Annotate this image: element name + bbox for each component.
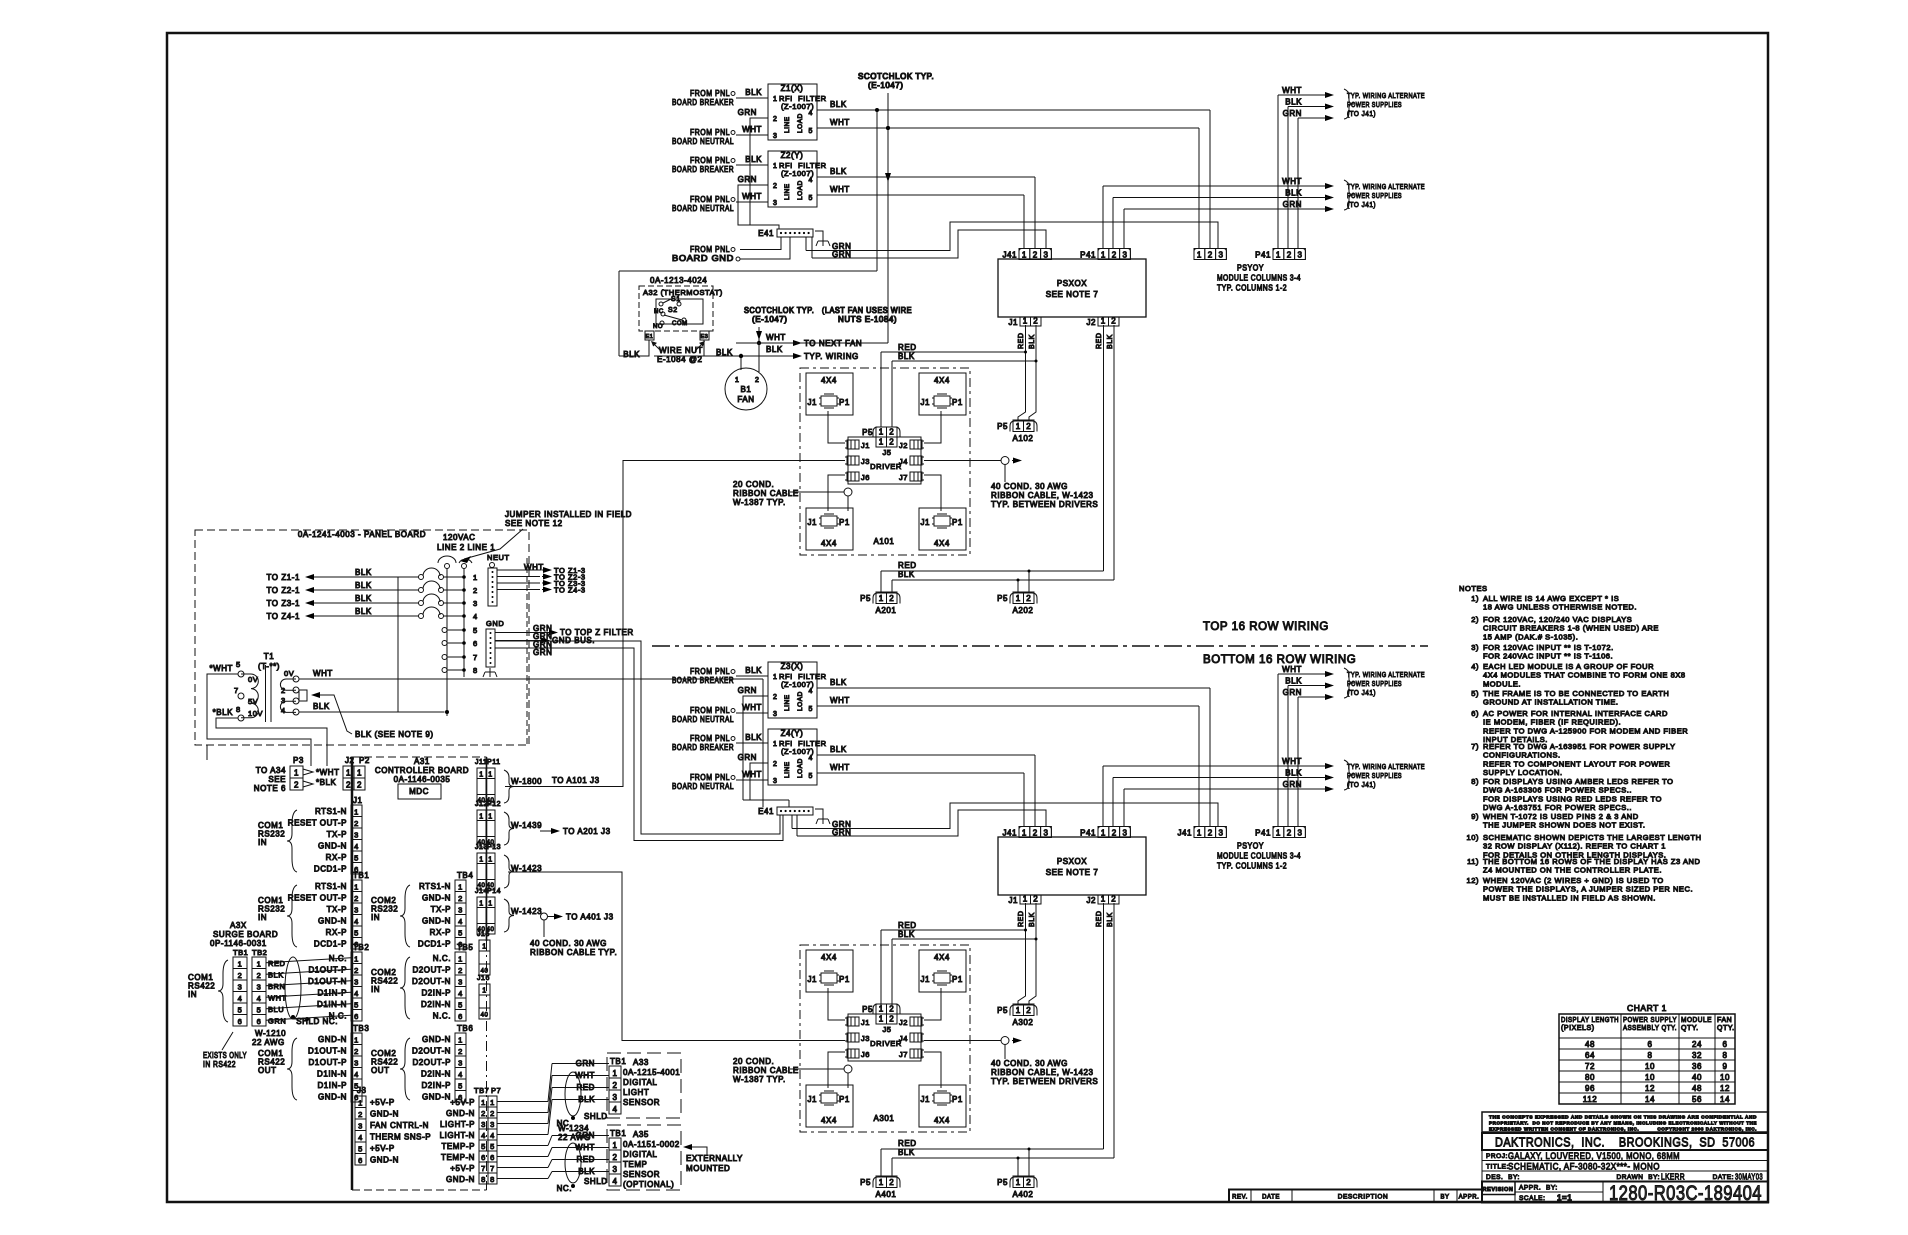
svg-text:BLK: BLK [1029,912,1036,927]
svg-text:FROM PNL: FROM PNL [690,245,730,254]
svg-text:4: 4 [281,706,286,715]
svg-text:TB5: TB5 [457,943,473,952]
svg-text:1: 1 [1023,317,1028,326]
svg-text:BLK: BLK [830,100,847,109]
svg-text:20 COND.: 20 COND. [733,480,774,489]
svg-text:112: 112 [1583,1095,1597,1104]
svg-text:TYP. WIRING: TYP. WIRING [804,352,859,361]
svg-text:DISPLAY LENGTH: DISPLAY LENGTH [1561,1017,1619,1024]
svg-text:4: 4 [458,989,463,998]
svg-text:BRN: BRN [268,982,286,991]
svg-text:P1: P1 [952,1095,963,1104]
svg-text:2: 2 [1033,251,1038,260]
svg-text:P1: P1 [952,398,963,407]
svg-text:N.C.: N.C. [433,954,451,963]
svg-text:GND-N: GND-N [318,842,347,851]
svg-text:BLK: BLK [1285,98,1302,107]
svg-text:1: 1 [879,1178,884,1187]
svg-text:J1: J1 [807,518,817,527]
svg-text:SUPPLY LOCATION.: SUPPLY LOCATION. [1483,768,1563,777]
svg-text:3: 3 [1044,829,1049,838]
svg-text:12: 12 [1720,1084,1730,1093]
svg-text:TO Z3-1: TO Z3-1 [267,599,301,608]
svg-text:4X4: 4X4 [821,376,837,385]
svg-text:1: 1 [613,1069,618,1078]
svg-text:REFER TO DWG A-125900 FOR MODE: REFER TO DWG A-125900 FOR MODEM AND FIBE… [1483,726,1688,735]
svg-text:1: 1 [1197,251,1202,260]
svg-text:RIBBON CABLE, W-1423: RIBBON CABLE, W-1423 [991,1068,1093,1077]
svg-text:D2OUT-P: D2OUT-P [412,966,451,975]
svg-text:6: 6 [490,1153,495,1162]
svg-text:1: 1 [735,377,739,384]
svg-text:P5: P5 [997,1178,1008,1187]
svg-text:WHT: WHT [766,333,786,342]
svg-text:2: 2 [458,894,463,903]
svg-text:GRN: GRN [533,648,552,657]
svg-text:P1: P1 [839,1095,850,1104]
svg-text:EXTERNALLY: EXTERNALLY [686,1154,743,1163]
svg-text:120VAC: 120VAC [443,533,476,542]
svg-text:WHT: WHT [830,185,850,194]
svg-text:96: 96 [1585,1084,1595,1093]
svg-text:ASSEMBLY QTY.: ASSEMBLY QTY. [1623,1025,1677,1032]
svg-text:(T-**): (T-**) [258,662,280,671]
svg-text:SHLD: SHLD [584,1112,608,1121]
svg-text:14: 14 [1645,1095,1655,1104]
svg-text:J1: J1 [920,398,930,407]
svg-text:4X4: 4X4 [934,376,950,385]
svg-text:1: 1 [1101,829,1106,838]
svg-text:1: 1 [346,769,351,778]
svg-text:LINE: LINE [784,116,791,133]
svg-text:40: 40 [481,1013,489,1019]
svg-text:BLK: BLK [1107,334,1114,349]
svg-text:FOR 120VAC INPUT ** IS T-1072.: FOR 120VAC INPUT ** IS T-1072. [1483,643,1614,652]
svg-text:2: 2 [354,819,359,828]
svg-text:1): 1) [1471,594,1479,603]
svg-text:TB7: TB7 [474,1086,489,1095]
svg-text:P1: P1 [839,398,850,407]
svg-text:0A-1213-4024: 0A-1213-4024 [650,276,707,285]
svg-text:40: 40 [1692,1073,1702,1082]
svg-text:P5: P5 [997,594,1008,603]
svg-text:REV.: REV. [1232,1195,1248,1201]
svg-text:A201: A201 [876,606,897,615]
svg-text:2: 2 [773,694,777,701]
svg-text:J12: J12 [475,801,488,808]
svg-text:SURGE BOARD: SURGE BOARD [213,930,278,939]
svg-text:3: 3 [358,1122,363,1131]
svg-text:5: 5 [458,1082,463,1091]
svg-text:6: 6 [257,1017,262,1026]
svg-text:GND: GND [486,619,504,628]
svg-text:RED: RED [1018,333,1025,349]
svg-text:J3: J3 [861,457,870,466]
svg-text:DATE:: DATE: [1713,1174,1734,1181]
svg-text:QTY.: QTY. [1717,1025,1735,1032]
svg-text:10): 10) [1467,833,1480,842]
svg-text:TO A34: TO A34 [256,766,286,775]
svg-text:DRAWN BY:: DRAWN BY: [1616,1174,1660,1181]
svg-text:6: 6 [458,1012,463,1021]
svg-text:(TO J41): (TO J41) [1347,200,1376,209]
svg-text:DIGITAL: DIGITAL [623,1150,657,1159]
svg-text:BLK: BLK [1107,912,1114,927]
svg-text:GND-N: GND-N [318,1035,347,1044]
svg-text:5: 5 [481,1142,486,1151]
svg-text:EXPRESSED WRITTEN CONSENT OF D: EXPRESSED WRITTEN CONSENT OF DAKTRONICS,… [1489,1127,1757,1132]
svg-text:1: 1 [479,901,483,908]
svg-text:OUT: OUT [258,1066,277,1075]
svg-text:BOTTOM 16 ROW WIRING: BOTTOM 16 ROW WIRING [1203,654,1356,666]
svg-text:W-1800: W-1800 [511,777,542,786]
svg-text:P41: P41 [1255,251,1271,260]
svg-text:8: 8 [473,666,478,675]
svg-text:GRN: GRN [738,108,757,117]
svg-text:4X4 MODULES THAT COMBINE TO FO: 4X4 MODULES THAT COMBINE TO FORM ONE 8X8 [1483,671,1686,680]
svg-text:GND BUS.: GND BUS. [552,636,595,645]
svg-text:REVISION: REVISION [1483,1187,1514,1193]
svg-text:DAKTRONICS, INC. BROOKINGS: DAKTRONICS, INC. BROOKINGS, SD 57006 [1495,1135,1755,1150]
svg-text:P5: P5 [860,1178,871,1187]
svg-text:DATE: DATE [1262,1195,1280,1201]
svg-text:32 ROW DISPLAY (X112). REFER T: 32 ROW DISPLAY (X112). REFER TO CHART 1 [1483,842,1666,851]
svg-text:TO Z1-1: TO Z1-1 [267,573,301,582]
svg-text:TB3: TB3 [353,1024,369,1033]
svg-text:GND-N: GND-N [318,1093,347,1102]
svg-text:5: 5 [458,929,463,938]
svg-text:Z3(X): Z3(X) [781,662,804,671]
svg-text:GND-N: GND-N [318,917,347,926]
svg-text:4: 4 [809,177,813,184]
svg-text:6): 6) [1471,709,1479,718]
svg-text:3: 3 [490,1120,495,1129]
svg-text:1: 1 [488,772,492,779]
svg-text:WHT: WHT [742,770,762,779]
svg-text:SHLD: SHLD [584,1177,608,1186]
svg-text:P1: P1 [839,975,850,984]
svg-text:TB1: TB1 [610,1057,626,1066]
svg-text:1: 1 [1016,422,1021,431]
svg-text:POWER SUPPLIES: POWER SUPPLIES [1347,191,1402,200]
svg-text:2: 2 [1026,1178,1031,1187]
svg-text:2): 2) [1471,615,1479,624]
svg-text:18 AWG UNLESS OTHERWISE NOTED.: 18 AWG UNLESS OTHERWISE NOTED. [1483,603,1637,612]
svg-text:5: 5 [257,1006,262,1015]
svg-text:REFER TO DWG A-163951 FOR POWE: REFER TO DWG A-163951 FOR POWER SUPPLY [1483,742,1676,751]
svg-text:(TO J41): (TO J41) [1347,688,1376,697]
svg-text:1: 1 [879,428,884,437]
svg-text:J2: J2 [899,441,908,450]
svg-text:3: 3 [773,200,777,207]
svg-text:2: 2 [490,1109,495,1118]
svg-text:TYP. BETWEEN DRIVERS: TYP. BETWEEN DRIVERS [991,500,1098,509]
svg-text:BLK (SEE NOTE 9): BLK (SEE NOTE 9) [355,730,434,739]
svg-text:D1OUT-N: D1OUT-N [308,1047,347,1056]
svg-text:6: 6 [481,1153,486,1162]
svg-text:RED: RED [1018,911,1025,927]
svg-text:P41: P41 [1080,251,1096,260]
svg-text:GRN: GRN [1283,200,1302,209]
svg-text:0A-1146-0035: 0A-1146-0035 [394,775,451,784]
svg-text:1: 1 [482,988,486,995]
svg-text:GRN: GRN [738,175,757,184]
svg-text:WHT: WHT [742,125,762,134]
svg-text:1: 1 [458,1036,463,1045]
svg-text:0A-1151-0002: 0A-1151-0002 [623,1140,680,1149]
svg-text:5: 5 [490,1142,495,1151]
svg-text:S2: S2 [668,307,678,314]
svg-text:SEE NOTE 7: SEE NOTE 7 [1046,290,1099,299]
svg-text:DWG A-163306 FOR POWER SPECS..: DWG A-163306 FOR POWER SPECS.. [1483,786,1632,795]
svg-text:TEMP-N: TEMP-N [441,1153,475,1162]
svg-text:8: 8 [236,705,241,714]
svg-text:BOARD NEUTRAL: BOARD NEUTRAL [672,782,734,791]
svg-text:J7: J7 [899,1050,908,1059]
svg-text:+5V-P: +5V-P [370,1098,395,1107]
svg-text:2: 2 [354,966,359,975]
svg-text:GND-N: GND-N [370,1156,399,1165]
svg-text:8): 8) [1471,777,1479,786]
svg-text:J41: J41 [1002,251,1017,260]
svg-text:SCOTCHLOK TYP.: SCOTCHLOK TYP. [858,72,934,81]
svg-text:CIRCUIT BREAKERS 1-8 (WHEN USE: CIRCUIT BREAKERS 1-8 (WHEN USED) ARE [1483,624,1659,633]
svg-text:BOARD BREAKER: BOARD BREAKER [672,676,734,685]
svg-text:J15: J15 [477,931,490,938]
svg-text:11): 11) [1467,857,1479,866]
svg-text:1: 1 [354,808,359,817]
svg-text:3: 3 [281,696,286,705]
svg-text:J1: J1 [807,1095,817,1104]
svg-text:D2IN-P: D2IN-P [421,989,451,998]
svg-text:PROJ:: PROJ: [1486,1153,1508,1160]
svg-text:2: 2 [1287,829,1292,838]
svg-text:9): 9) [1471,812,1479,821]
svg-text:J6: J6 [861,1050,870,1059]
svg-text:D2OUT-N: D2OUT-N [412,1047,451,1056]
svg-text:TYP. COLUMNS 1-2: TYP. COLUMNS 1-2 [1217,284,1287,293]
svg-text:1: 1 [473,573,478,582]
svg-text:40 COND. 30 AWG: 40 COND. 30 AWG [991,1059,1068,1068]
svg-text:WHT: WHT [830,118,850,127]
svg-text:2: 2 [1026,594,1031,603]
svg-text:FROM PNL: FROM PNL [690,195,730,204]
svg-text:7: 7 [481,1164,486,1173]
svg-text:0P-1146-0031: 0P-1146-0031 [210,939,267,948]
svg-text:3: 3 [773,133,777,140]
svg-text:APPR. BY:: APPR. BY: [1519,1185,1558,1192]
svg-text:W-1387 TYP.: W-1387 TYP. [733,498,786,507]
svg-text:5: 5 [809,773,813,780]
svg-text:10: 10 [1645,1073,1655,1082]
svg-text:P1: P1 [839,518,850,527]
svg-text:24: 24 [1692,1040,1702,1049]
svg-text:THE BOTTOM 16 ROWS OF THE DISP: THE BOTTOM 16 ROWS OF THE DISPLAY HAS Z3… [1483,857,1700,866]
svg-text:W-1423: W-1423 [511,907,542,916]
svg-text:P12: P12 [487,801,501,808]
svg-text:DWG A-163751 FOR POWER SPECS..: DWG A-163751 FOR POWER SPECS.. [1483,803,1632,812]
svg-text:LKERR: LKERR [1661,1172,1685,1182]
svg-text:4X4: 4X4 [821,953,837,962]
svg-text:FAN CNTRL-N: FAN CNTRL-N [370,1121,429,1130]
svg-text:GROUND AT INSTALLATION TIME.: GROUND AT INSTALLATION TIME. [1483,698,1619,707]
svg-text:A3X: A3X [230,921,247,930]
svg-text:POWER SUPPLIES: POWER SUPPLIES [1347,679,1402,688]
svg-text:3: 3 [238,983,243,992]
svg-text:TB2: TB2 [353,943,369,952]
svg-text:PSYOY: PSYOY [1237,842,1264,851]
svg-text:2: 2 [481,1109,486,1118]
svg-text:RX-P: RX-P [326,853,347,862]
svg-text:POWER THE DISPLAYS, A JUMPER S: POWER THE DISPLAYS, A JUMPER SIZED PER N… [1483,885,1693,894]
svg-text:P7: P7 [491,1086,501,1095]
svg-text:J4: J4 [899,1034,908,1043]
svg-text:POWER SUPPLY: POWER SUPPLY [1623,1017,1677,1024]
svg-text:WHT: WHT [830,696,850,705]
svg-text:5: 5 [358,1145,363,1154]
svg-text:RTS1-N: RTS1-N [315,882,347,891]
svg-text:3: 3 [354,1059,359,1068]
svg-text:48: 48 [1692,1084,1702,1093]
svg-text:RED: RED [898,343,917,352]
svg-text:J2: J2 [1086,318,1096,327]
svg-text:FROM PNL: FROM PNL [690,773,730,782]
svg-text:FOR 120VAC, 120/240 VAC DISPLA: FOR 120VAC, 120/240 VAC DISPLAYS [1483,615,1632,624]
svg-text:RX-P: RX-P [326,928,347,937]
svg-text:0A-1215-4001: 0A-1215-4001 [623,1068,680,1077]
svg-text:P13: P13 [487,844,501,851]
svg-text:E41: E41 [758,229,774,238]
svg-text:J2: J2 [345,756,355,765]
svg-text:IN: IN [371,913,380,922]
svg-text:FROM PNL: FROM PNL [690,734,730,743]
svg-text:1: 1 [613,1141,618,1150]
svg-text:(E-1047): (E-1047) [752,315,788,324]
svg-text:1: 1 [238,960,243,969]
svg-text:RIBBON CABLE: RIBBON CABLE [733,489,799,498]
svg-text:5: 5 [354,1001,359,1010]
svg-text:CONTROLLER BOARD: CONTROLLER BOARD [375,766,469,775]
svg-text:P5: P5 [997,422,1008,431]
svg-text:4X4: 4X4 [934,953,950,962]
svg-text:TX-P: TX-P [327,830,347,839]
svg-text:A301: A301 [874,1114,895,1123]
svg-text:SCALE:: SCALE: [1519,1195,1545,1202]
svg-text:WHEN T-1072 IS USED PINS 2 & 3: WHEN T-1072 IS USED PINS 2 & 3 AND [1483,812,1639,821]
svg-text:TB1: TB1 [610,1129,626,1138]
svg-text:RIBBON CABLE, W-1423: RIBBON CABLE, W-1423 [991,491,1093,500]
svg-text:BLK: BLK [313,702,330,711]
svg-text:5: 5 [473,626,478,635]
svg-text:6: 6 [354,1012,359,1021]
svg-text:2: 2 [613,1081,618,1090]
svg-text:1: 1 [479,857,483,864]
svg-text:5V: 5V [248,697,258,706]
svg-text:3): 3) [1471,643,1479,652]
svg-text:J1: J1 [807,975,817,984]
svg-text:5: 5 [354,854,359,863]
svg-text:BLK: BLK [830,678,847,687]
svg-text:J3: J3 [861,1034,870,1043]
svg-text:DIGITAL: DIGITAL [623,1078,657,1087]
svg-text:2: 2 [773,116,777,123]
svg-text:RED: RED [898,1139,917,1148]
svg-text:BOARD BREAKER: BOARD BREAKER [672,98,734,107]
svg-text:RED: RED [898,921,917,930]
svg-text:D2IN-N: D2IN-N [421,1070,451,1079]
svg-text:POWER SUPPLIES: POWER SUPPLIES [1347,771,1402,780]
svg-text:*BLK: *BLK [213,708,234,717]
svg-text:3: 3 [354,831,359,840]
svg-text:2: 2 [755,377,759,384]
svg-text:MOUNTED: MOUNTED [686,1164,730,1173]
svg-text:J5: J5 [882,448,891,457]
svg-text:4X4: 4X4 [934,1116,950,1125]
svg-text:1: 1 [490,1098,495,1107]
svg-text:3: 3 [773,778,777,785]
svg-text:J41: J41 [1177,829,1192,838]
svg-text:6: 6 [238,1017,243,1026]
svg-text:(OPTIONAL): (OPTIONAL) [623,1180,674,1189]
svg-text:BOARD NEUTRAL: BOARD NEUTRAL [672,204,734,213]
svg-text:+5V-P: +5V-P [370,1144,395,1153]
svg-text:48: 48 [1585,1040,1595,1049]
svg-text:WHT: WHT [1282,177,1302,186]
svg-text:2: 2 [1111,317,1116,326]
svg-text:3: 3 [354,978,359,987]
svg-text:FOR DISPLAYS USING RED LEDS RE: FOR DISPLAYS USING RED LEDS REFER TO [1483,794,1662,803]
svg-text:10: 10 [1720,1073,1730,1082]
svg-text:P5: P5 [862,428,873,437]
svg-text:J2: J2 [1086,896,1096,905]
svg-text:BLK: BLK [355,568,372,577]
svg-text:E41: E41 [758,807,774,816]
svg-text:2: 2 [613,1153,618,1162]
svg-text:1: 1 [1016,594,1021,603]
svg-text:THE JUMPER SHOWN DOES NOT EXIS: THE JUMPER SHOWN DOES NOT EXIST. [1483,821,1645,830]
svg-text:(E-1047): (E-1047) [868,81,904,90]
svg-text:1: 1 [458,955,463,964]
svg-text:1: 1 [357,769,362,778]
svg-text:A302: A302 [1013,1018,1034,1027]
svg-text:LINE: LINE [784,183,791,200]
svg-text:BLK: BLK [745,88,762,97]
svg-text:40 COND. 30 AWG: 40 COND. 30 AWG [991,482,1068,491]
svg-text:GND-N: GND-N [370,1110,399,1119]
svg-text:3: 3 [613,1165,618,1174]
svg-text:TO Z2-1: TO Z2-1 [267,586,301,595]
svg-text:J1: J1 [920,518,930,527]
svg-text:MODULE COLUMNS 3-4: MODULE COLUMNS 3-4 [1217,274,1301,283]
svg-text:1: 1 [488,814,492,821]
svg-text:GND-N: GND-N [422,1035,451,1044]
svg-text:J4: J4 [899,457,908,466]
svg-text:TYP. WIRING ALTERNATE: TYP. WIRING ALTERNATE [1347,182,1425,191]
svg-text:4: 4 [458,917,463,926]
svg-text:PSYOY: PSYOY [1237,264,1264,273]
svg-text:Z4 MOUNTED ON THE CONTROLLER P: Z4 MOUNTED ON THE CONTROLLER PLATE. [1483,866,1662,875]
svg-text:2: 2 [354,894,359,903]
svg-text:1: 1 [1023,895,1028,904]
svg-text:FROM PNL: FROM PNL [690,667,730,676]
svg-text:BOARD GND: BOARD GND [672,254,734,263]
svg-text:1: 1 [879,1015,884,1024]
svg-text:7: 7 [490,1164,495,1173]
svg-text:WHT: WHT [830,763,850,772]
svg-text:BOARD BREAKER: BOARD BREAKER [672,743,734,752]
svg-text:J1: J1 [920,1095,930,1104]
svg-text:TYP. WIRING ALTERNATE: TYP. WIRING ALTERNATE [1347,670,1425,679]
